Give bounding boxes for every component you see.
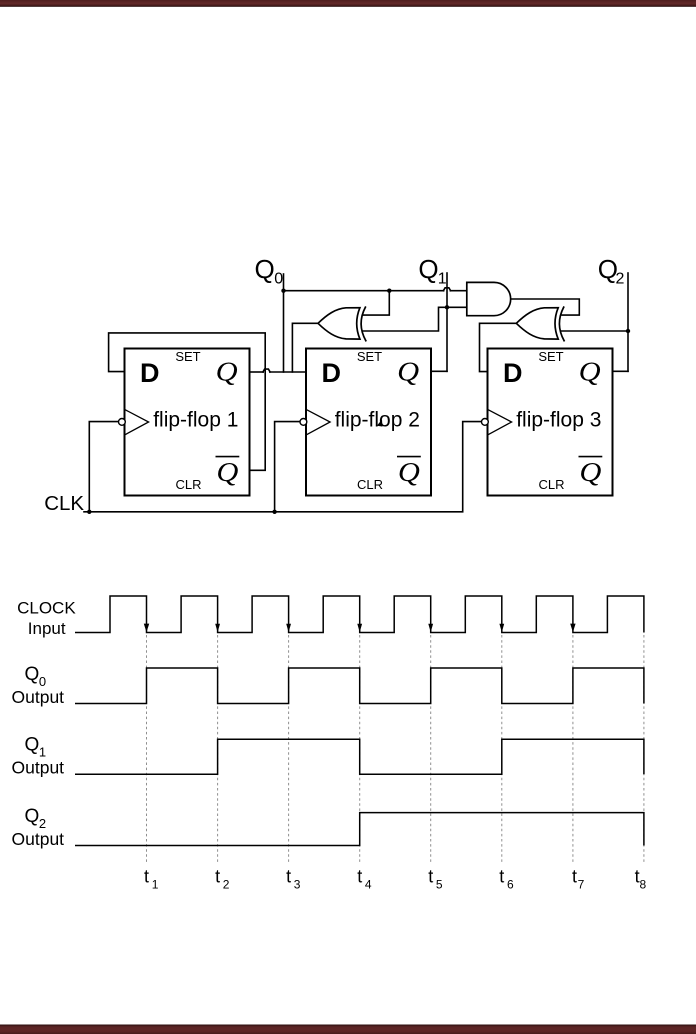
- svg-text:flip-flop 2: flip-flop 2: [335, 408, 420, 431]
- svg-text:CLR: CLR: [175, 477, 201, 492]
- svg-text:t: t: [286, 867, 291, 887]
- svg-text:CLR: CLR: [357, 477, 383, 492]
- node dot Q0 branch to XOR U1: [387, 289, 391, 293]
- clock falling-edge arrow t7: [570, 624, 575, 633]
- wire: CLK branch to FF2 clock: [275, 422, 300, 512]
- node Q0 vertical wire: [283, 274, 285, 372]
- cursor artifact in FF2: [377, 420, 383, 427]
- svg-text:5: 5: [436, 878, 443, 892]
- t6 gridline: [501, 635, 503, 865]
- node dot CLK branch 1: [87, 510, 91, 514]
- clock input bubbles and edge triangles: [119, 410, 512, 435]
- flip-flop FF1 box: [125, 349, 250, 496]
- svg-text:Q: Q: [216, 457, 238, 487]
- svg-text:Input: Input: [28, 619, 66, 638]
- t2 gridline: [217, 635, 219, 865]
- svg-text:Q: Q: [579, 357, 601, 387]
- clock falling-edge arrow t5: [428, 624, 433, 633]
- t5 gridline: [430, 635, 432, 865]
- svg-text:Output: Output: [12, 829, 65, 849]
- FF2 Q-bar overline: [397, 456, 421, 458]
- svg-text:SET: SET: [538, 349, 563, 364]
- svg-text:6: 6: [507, 878, 514, 892]
- wire: Q0 bus right segment into AND gate upper input: [450, 290, 467, 292]
- FF1 Q-bar overline: [216, 456, 240, 458]
- svg-text:t: t: [144, 867, 149, 887]
- FF2 clock bubble: [300, 419, 307, 426]
- svg-text:0: 0: [274, 271, 283, 288]
- flip-flop FF2 box: [306, 349, 431, 496]
- wire: XOR U1 output down to FF2 D row: [292, 323, 318, 372]
- flip-flop boxes: [125, 349, 613, 496]
- svg-text:1: 1: [438, 271, 447, 288]
- wire: Q1 waveform: [75, 739, 644, 774]
- clock falling-edge arrow t2: [215, 624, 220, 633]
- svg-text:CLK: CLK: [44, 492, 84, 515]
- wire: Q0 bus branch down to XOR U1 upper input: [363, 291, 390, 315]
- svg-text:Q: Q: [398, 457, 420, 487]
- net labels: [44, 254, 624, 515]
- t1 gridline: [146, 635, 148, 865]
- t7 gridline: [572, 635, 574, 865]
- svg-text:2: 2: [616, 271, 625, 288]
- FF2 clock triangle: [307, 410, 331, 435]
- svg-text:t: t: [215, 867, 220, 887]
- svg-text:Q: Q: [216, 357, 238, 387]
- wire: AND U2 output to XOR U3 upper input: [511, 299, 580, 315]
- FF3 clock triangle: [488, 410, 512, 435]
- svg-text:Q: Q: [418, 254, 438, 284]
- and gate U2: [467, 282, 511, 315]
- svg-text:Q: Q: [25, 806, 40, 827]
- wire: FF1 feedback loop Q-bar to D: [109, 333, 266, 470]
- clock falling-edge arrow t1: [144, 624, 149, 633]
- svg-text:4: 4: [365, 878, 372, 892]
- node dot Q0 at bus: [281, 289, 285, 293]
- FF3 Q-bar overline: [579, 456, 603, 458]
- t3 gridline: [288, 635, 290, 865]
- svg-text:Q: Q: [255, 254, 275, 284]
- svg-text:SET: SET: [175, 349, 200, 364]
- junction dots: [87, 289, 630, 515]
- wire: Q0 waveform: [75, 668, 644, 704]
- svg-text:Output: Output: [12, 758, 65, 778]
- top banner bar: [0, 0, 696, 7]
- svg-text:D: D: [503, 358, 523, 388]
- svg-text:Q: Q: [25, 664, 40, 685]
- svg-text:t: t: [572, 867, 577, 887]
- wire: CLK branch to FF1 clock: [89, 422, 118, 512]
- FF1 clock triangle: [125, 410, 149, 435]
- wire: CLK main line with right riser to FF3 clock: [84, 422, 481, 512]
- svg-text:D: D: [322, 358, 342, 388]
- svg-text:t: t: [357, 867, 362, 887]
- bottom banner bar: [0, 1025, 696, 1034]
- wire: Q0 bus left segment: [284, 290, 444, 292]
- svg-text:7: 7: [578, 878, 585, 892]
- wire hop over FF1 feedback wire: [263, 369, 270, 372]
- wire: FF2 Q output stub: [431, 370, 447, 372]
- svg-text:t: t: [499, 867, 504, 887]
- svg-text:D: D: [140, 358, 160, 388]
- svg-text:flip-flop 1: flip-flop 1: [153, 408, 238, 431]
- FF3 clock bubble: [482, 419, 489, 426]
- clock falling-edge arrow t3: [286, 624, 291, 633]
- svg-text:2: 2: [223, 878, 230, 892]
- op-amp-style gate shapes: [318, 282, 564, 340]
- wire: XOR U3 output down to FF3 D input: [480, 323, 517, 371]
- xor gate U3 (points left) body: [516, 308, 558, 339]
- svg-text:3: 3: [294, 878, 301, 892]
- wire: XOR U3 lower input from Q2: [561, 330, 628, 332]
- t8 gridline: [643, 635, 645, 865]
- wire: CLOCK waveform: [75, 596, 644, 633]
- svg-text:SET: SET: [357, 349, 382, 364]
- wire: Q2 waveform: [75, 813, 644, 846]
- svg-text:1: 1: [152, 878, 159, 892]
- svg-text:Q: Q: [579, 457, 601, 487]
- wire: Q1 branch to AND lower input and XOR U1 lower input: [363, 307, 467, 331]
- t4 gridline: [359, 635, 361, 865]
- xor gate U3 outer input arc: [559, 307, 564, 341]
- svg-text:flip-flop 3: flip-flop 3: [516, 408, 601, 431]
- xor gate U1 (points left) body: [318, 308, 360, 339]
- node Q2 vertical wire: [627, 273, 629, 371]
- clock falling-edge arrow t6: [499, 624, 504, 633]
- node dot CLK branch 2: [272, 510, 276, 514]
- xor gate U1 outer input arc: [361, 307, 366, 341]
- node dot Q2 branch: [626, 329, 630, 333]
- clock falling-edge arrow t4: [357, 624, 362, 633]
- svg-text:Q: Q: [25, 735, 40, 756]
- svg-text:8: 8: [640, 878, 647, 892]
- node Q1 vertical wire: [446, 273, 448, 371]
- node dot Q1 branch: [445, 305, 449, 309]
- svg-text:CLR: CLR: [538, 477, 564, 492]
- FF1 clock bubble: [119, 419, 126, 426]
- svg-text:t: t: [428, 867, 433, 887]
- flip-flop pin and name labels: [140, 349, 602, 492]
- wire hop over Q1 vertical: [443, 288, 450, 291]
- svg-text:CLOCK: CLOCK: [17, 599, 76, 618]
- timing diagram: [147, 635, 644, 865]
- svg-text:Output: Output: [12, 687, 65, 707]
- wire: FF1 Q output to Q0 node and FF2 D input (left of hop): [249, 371, 263, 373]
- flip-flop FF3 box: [488, 349, 613, 496]
- wire: Q0/XOR output row into FF2 D input (right of hop): [270, 371, 306, 373]
- wire: FF3 Q output stub: [612, 370, 628, 372]
- svg-text:Q: Q: [397, 357, 419, 387]
